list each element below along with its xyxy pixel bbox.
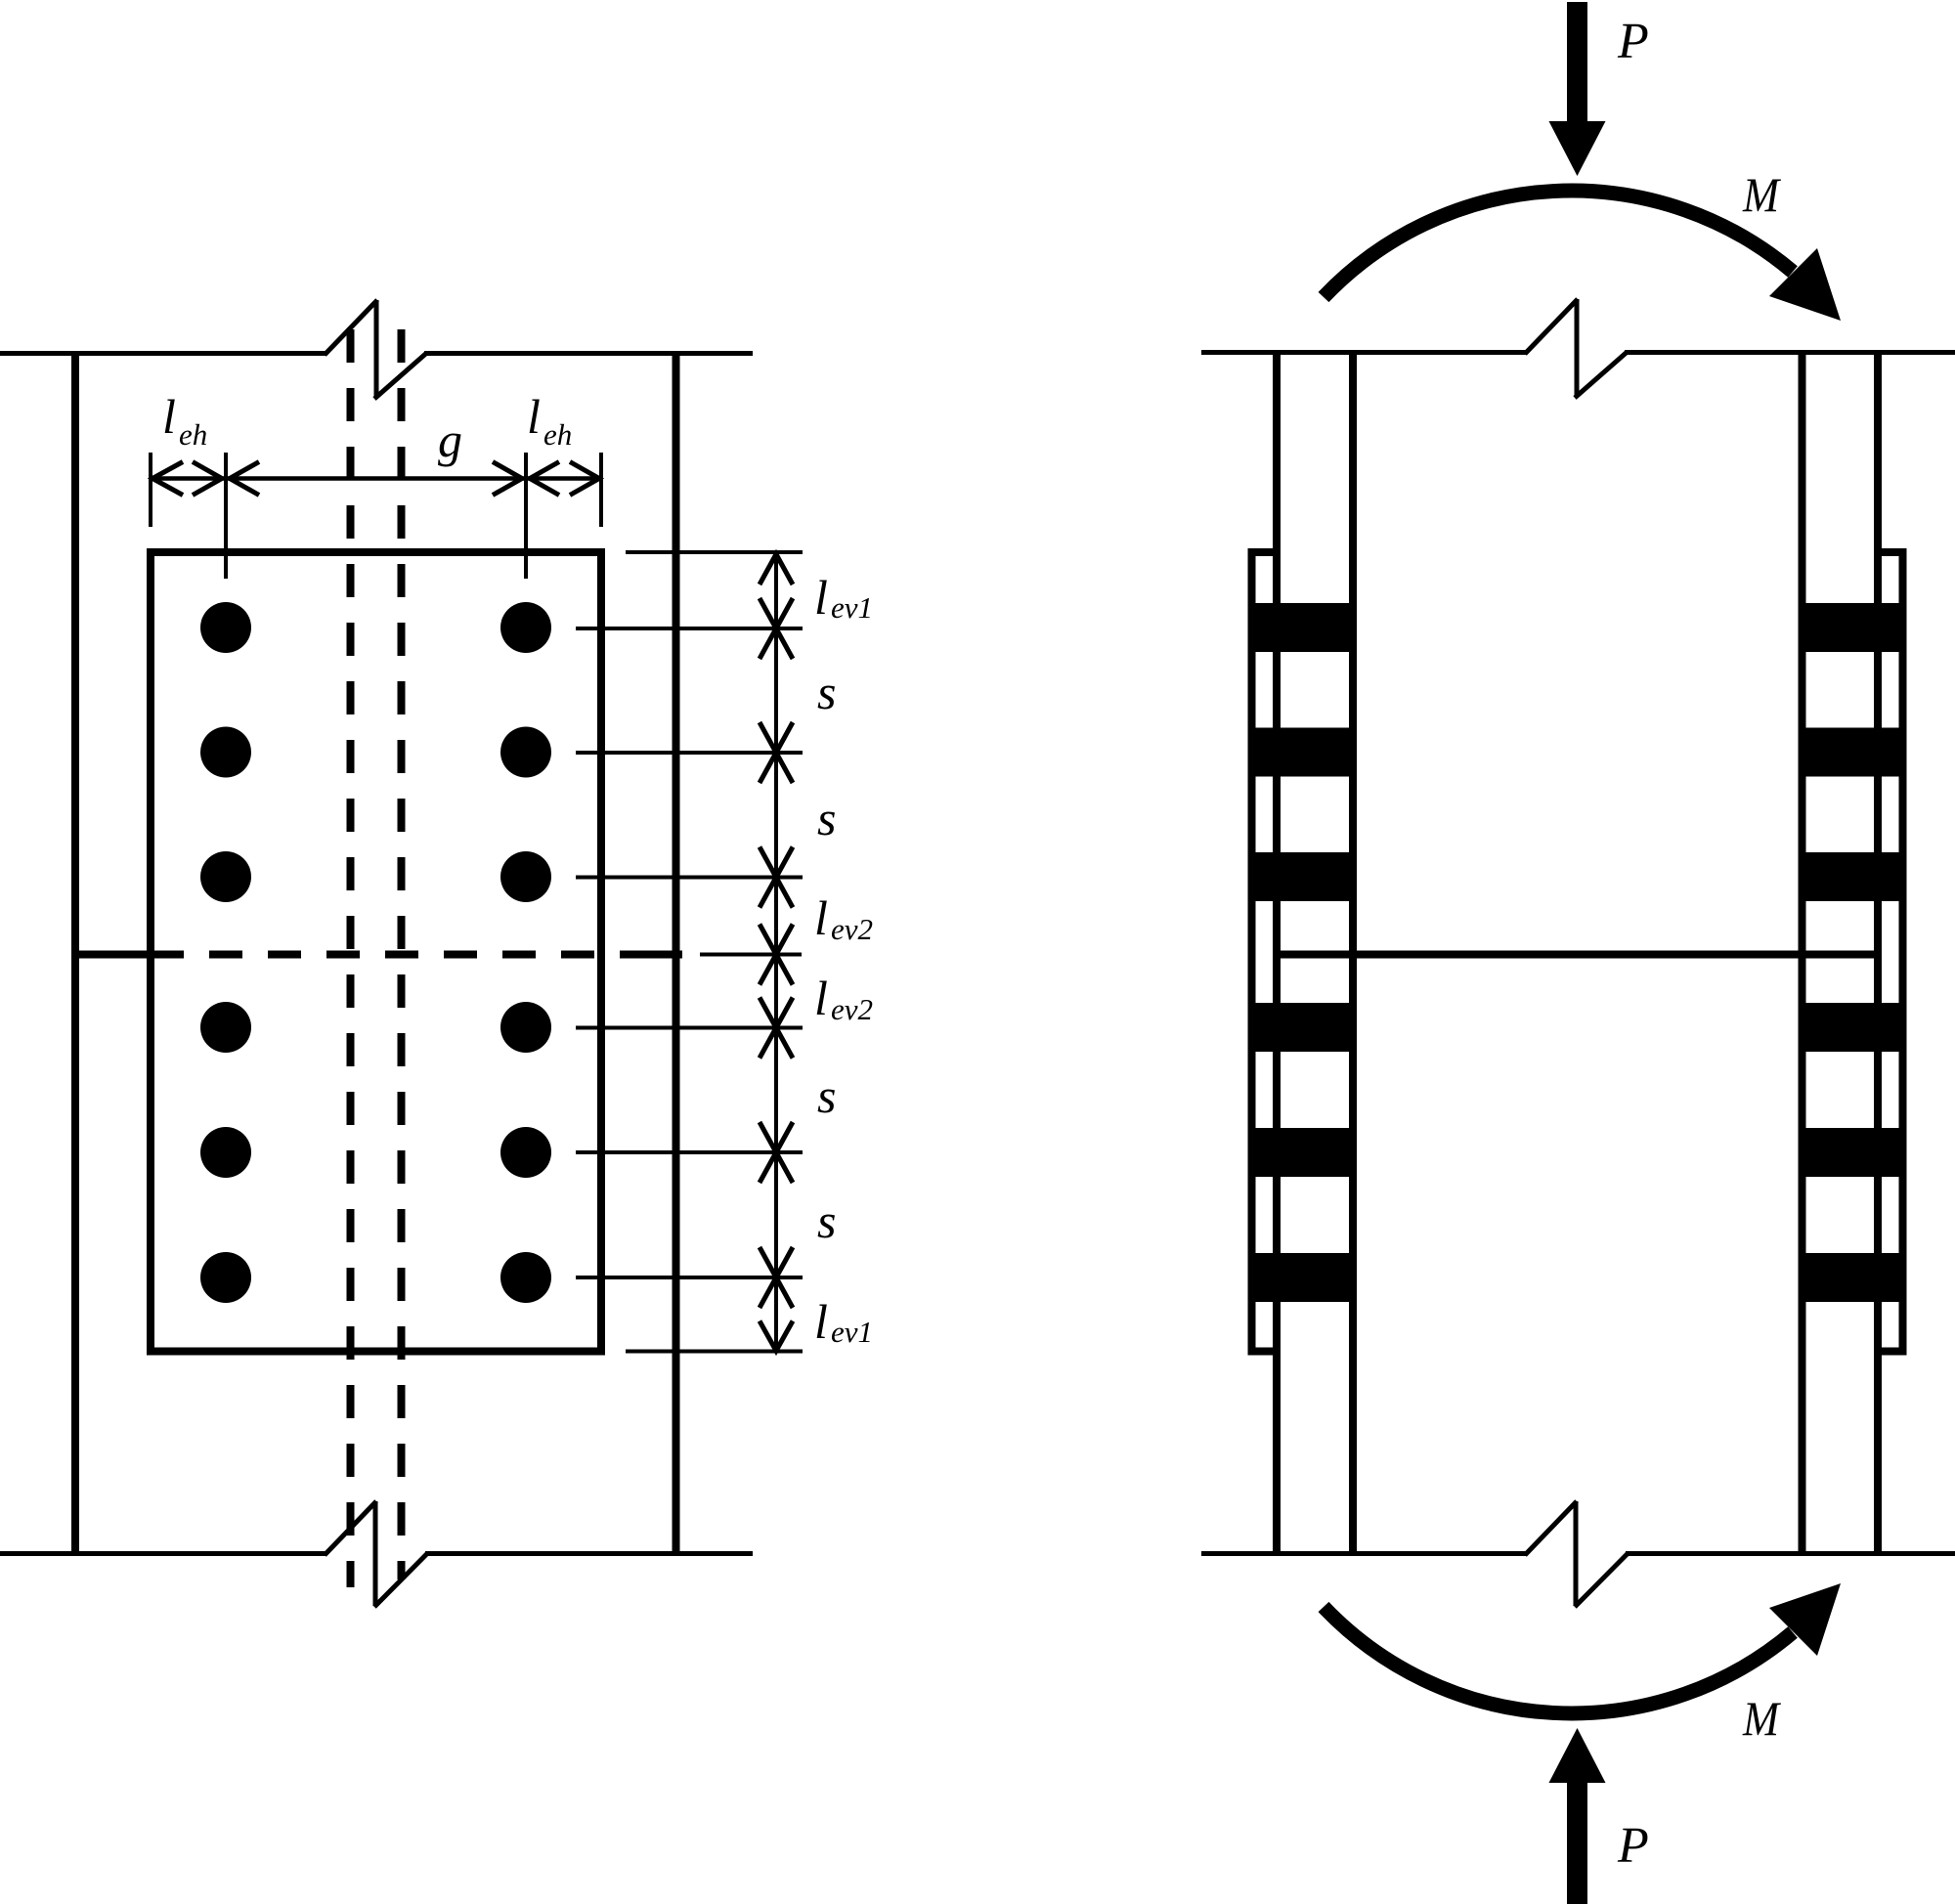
bolt bar left row 2	[1248, 728, 1356, 777]
vertical dimension line	[774, 553, 778, 1352]
bolt A4	[200, 1002, 251, 1053]
extension line row 5	[576, 1150, 803, 1154]
top break diagonal right	[1575, 353, 1627, 399]
bottom break diagonal right	[1575, 1554, 1628, 1608]
bolt B1	[500, 602, 551, 653]
svg-text:eh: eh	[543, 417, 572, 452]
arrowhead pair at row 1	[760, 598, 793, 659]
mid joint line	[1277, 951, 1878, 959]
bolt A2	[200, 727, 251, 778]
svg-text:l: l	[814, 890, 828, 945]
right flange inner vertical	[1799, 351, 1806, 1556]
bolt bar left row 1	[1248, 603, 1356, 652]
bolt B3	[500, 851, 551, 902]
svg-text:ev1: ev1	[831, 1315, 873, 1349]
top break vertical	[1575, 299, 1580, 397]
svg-text:l: l	[527, 389, 541, 444]
bolt B4	[500, 1002, 551, 1053]
right member edge vertical	[673, 351, 680, 1556]
top flange line right segment	[1625, 350, 1955, 355]
svg-text:ev2: ev2	[831, 912, 873, 946]
left flange outer vertical	[1273, 351, 1281, 1556]
load arrow P top shaft	[1567, 2, 1587, 121]
top break diagonal left	[1525, 299, 1578, 354]
svg-text:l: l	[814, 570, 828, 625]
left member edge vertical	[71, 351, 79, 1556]
svg-text:l: l	[814, 1294, 828, 1349]
arrowhead up at plate top	[760, 554, 793, 584]
bolt bar left row 6	[1248, 1253, 1356, 1302]
arrowhead left-pointing at col2	[530, 462, 559, 496]
left flange inner vertical	[1349, 351, 1357, 1556]
bolt A5	[200, 1127, 251, 1178]
top break vertical	[374, 300, 379, 398]
right splice plate outline	[1878, 552, 1903, 1352]
svg-text:P: P	[1617, 1818, 1649, 1874]
dashed mid joint line solid part	[71, 951, 184, 959]
witness line bolt column 1	[224, 453, 228, 579]
svg-text:P: P	[1617, 14, 1649, 69]
bottom break vertical	[1574, 1501, 1579, 1606]
arrowhead pair at row 6	[760, 1247, 793, 1308]
bolt bar left row 4	[1248, 1003, 1356, 1052]
arrowhead left-pointing at col1	[230, 462, 259, 496]
bolt B5	[500, 1127, 551, 1178]
witness line plate right edge	[599, 453, 603, 527]
load arrow P bottom shaft	[1567, 1783, 1587, 1904]
svg-text:ev1: ev1	[831, 590, 873, 625]
bolt bar right row 1	[1799, 603, 1906, 652]
load arrow P bottom head	[1549, 1728, 1606, 1783]
bolt bar right row 5	[1799, 1128, 1906, 1177]
bolt bar right row 3	[1799, 852, 1906, 901]
arrowhead pair at mid joint	[760, 925, 793, 985]
bolt bar right row 2	[1799, 728, 1906, 777]
horizontal dimension line	[151, 476, 601, 481]
bolt B6	[500, 1252, 551, 1303]
extension line row 2	[576, 751, 803, 755]
bolt bar left row 5	[1248, 1128, 1356, 1177]
moment arc M bottom	[1324, 1607, 1793, 1713]
svg-text:g: g	[438, 412, 462, 467]
extension line mid joint	[700, 953, 802, 957]
svg-text:l: l	[162, 389, 176, 444]
bottom flange line left segment	[1201, 1551, 1527, 1556]
extension line plate top	[626, 550, 803, 554]
witness line plate left edge	[149, 453, 152, 527]
top break diagonal left	[325, 300, 377, 355]
bolt A1	[200, 602, 251, 653]
bolt B2	[500, 727, 551, 778]
bolt A3	[200, 851, 251, 902]
arrowhead right-pointing at col1	[193, 462, 222, 496]
load arrow P top head	[1549, 121, 1606, 176]
top break diagonal right	[374, 354, 426, 400]
dashed mid joint line last dash	[620, 951, 682, 959]
arrowhead pair at row 2	[760, 722, 793, 783]
bolt bar right row 6	[1799, 1253, 1906, 1302]
top flange line left segment	[1201, 350, 1527, 355]
moment arrowhead M bottom	[1769, 1583, 1841, 1656]
bottom flange line left segment	[0, 1551, 326, 1556]
bolt A6	[200, 1252, 251, 1303]
arrowhead pair at row 3	[760, 847, 793, 908]
extension line row 3	[576, 876, 803, 880]
extension line plate bottom	[626, 1350, 803, 1354]
bottom break diagonal left	[1525, 1501, 1577, 1555]
bottom break diagonal left	[325, 1501, 376, 1555]
svg-text:M: M	[1742, 1691, 1781, 1746]
left splice plate outline	[1252, 552, 1278, 1352]
dashed mid joint line dashes	[209, 951, 594, 959]
extension line row 6	[576, 1276, 803, 1279]
arrowhead right end l_eh	[570, 462, 599, 496]
bottom break diagonal right	[374, 1554, 427, 1608]
svg-text:l: l	[814, 971, 828, 1025]
right flange outer vertical	[1874, 351, 1882, 1556]
bottom flange line right segment	[1626, 1551, 1955, 1556]
svg-text:s: s	[817, 665, 836, 719]
svg-text:s: s	[817, 1068, 836, 1123]
dashed centerline left	[347, 329, 355, 1587]
arrowhead left end l_eh	[152, 462, 183, 496]
svg-text:ev2: ev2	[831, 992, 873, 1026]
arrowhead right-pointing at col2	[493, 462, 522, 496]
arrowhead pair at row 5	[760, 1122, 793, 1183]
dashed centerline right	[398, 329, 406, 1579]
arrowhead down at plate bottom	[760, 1321, 793, 1352]
bolt bar left row 3	[1248, 852, 1356, 901]
arrowhead pair at row 4	[760, 998, 793, 1059]
extension line row 1	[576, 627, 803, 630]
bottom break vertical	[373, 1501, 378, 1606]
splice plate outline	[151, 552, 601, 1352]
bottom flange line right segment	[425, 1551, 753, 1556]
moment arc M top	[1324, 191, 1793, 297]
moment arrowhead M top	[1769, 248, 1841, 321]
top flange line left segment	[0, 351, 326, 356]
svg-text:eh: eh	[179, 417, 207, 452]
svg-text:M: M	[1742, 167, 1781, 222]
svg-text:s: s	[817, 791, 836, 845]
top flange line right segment	[424, 351, 753, 356]
bolt bar right row 4	[1799, 1003, 1906, 1052]
svg-text:s: s	[817, 1193, 836, 1248]
extension line row 4	[576, 1026, 803, 1030]
witness line bolt column 2	[524, 453, 528, 579]
